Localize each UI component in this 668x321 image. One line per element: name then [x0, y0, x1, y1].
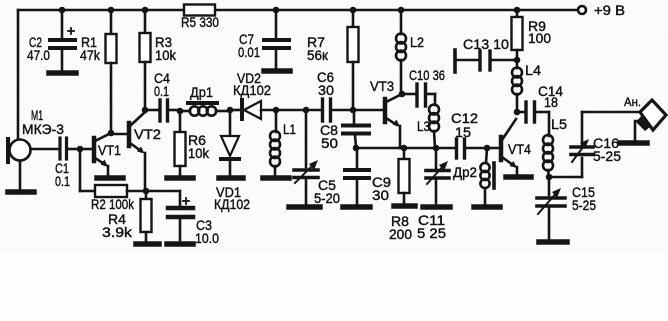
- resistor R8: [389, 148, 412, 242]
- diode VD1 КД102: [214, 110, 250, 212]
- node VT1 collector / R1 junction: [108, 130, 127, 137]
- svg-text:200: 200: [389, 227, 412, 242]
- node rail junction R1: [108, 7, 115, 14]
- node VD2 line / C5 junction: [303, 107, 310, 114]
- varicap VD2 КД102: [233, 71, 320, 119]
- node VT4 base / Dr2 junction: [484, 145, 491, 152]
- wire +9V rail right segment: [215, 9, 578, 12]
- svg-text:10k: 10k: [155, 48, 176, 63]
- microphone M1 МКЭ-3: [8, 108, 64, 189]
- inductor Dr2 choke: [453, 148, 494, 204]
- ground under L1: [263, 175, 289, 181]
- node L5 / C15 / C16 junction: [546, 174, 582, 181]
- resistor R9: [512, 10, 552, 68]
- svg-text:КД102: КД102: [233, 83, 271, 98]
- capacitor C8: [320, 110, 369, 151]
- svg-text:L2: L2: [410, 35, 424, 50]
- inductor L4: [512, 63, 542, 112]
- svg-text:18: 18: [544, 95, 558, 110]
- transistor VT3: [370, 79, 401, 148]
- svg-text:5-25: 5-25: [572, 198, 596, 213]
- wire left drop to microphone: [17, 10, 20, 140]
- svg-text:50: 50: [321, 136, 338, 151]
- node Dr1 / VD1 / VD2 junction: [227, 107, 240, 114]
- node rail junction C7: [273, 7, 280, 14]
- ground under C3: [167, 241, 193, 247]
- capacitor C14: [526, 84, 563, 122]
- node rail junction R3: [142, 7, 149, 14]
- node VT4 collector / L4 / C14 junction: [514, 109, 524, 116]
- node base VT1 / R2 junction: [77, 146, 92, 153]
- ground under VD1: [219, 175, 243, 181]
- resistor R6: [175, 111, 210, 175]
- ground under VT1 emitter: [97, 175, 123, 181]
- ground under Dr2: [474, 204, 500, 210]
- transistor VT1: [94, 134, 121, 176]
- svg-text:R2 100k: R2 100k: [91, 197, 134, 212]
- variable capacitor C5: [294, 110, 340, 206]
- svg-text:15: 15: [455, 125, 471, 140]
- svg-text:3.9k: 3.9k: [102, 225, 132, 240]
- svg-text:5 25: 5 25: [417, 226, 446, 241]
- capacitor C6: [317, 70, 352, 121]
- transistor VT4: [501, 119, 531, 174]
- node rail junction R9: [514, 7, 521, 14]
- node L3 / C11 / C12 junction: [433, 145, 440, 152]
- capacitor C9: [345, 148, 391, 204]
- svg-text:47.0: 47.0: [27, 48, 50, 63]
- svg-text:47k: 47k: [80, 48, 100, 63]
- svg-text:МКЭ-3: МКЭ-3: [22, 122, 64, 137]
- inductor L3: [417, 94, 439, 148]
- resistor R3: [140, 10, 177, 110]
- svg-text:C13 10: C13 10: [463, 37, 509, 52]
- svg-text:10.0: 10.0: [195, 231, 219, 246]
- resistor R5: [181, 5, 219, 31]
- ground under C9: [343, 204, 370, 210]
- svg-text:56к: 56к: [307, 48, 328, 63]
- svg-text:100: 100: [528, 31, 551, 46]
- node C8 / C9 / emitter line junction: [353, 145, 360, 152]
- inductor L1: [270, 110, 296, 175]
- svg-text:VT1: VT1: [98, 143, 121, 158]
- svg-text:10k: 10k: [188, 146, 209, 161]
- svg-text:30: 30: [318, 83, 334, 98]
- node +9V terminal: [578, 3, 625, 18]
- svg-text:Ан.: Ан.: [624, 95, 641, 109]
- wire emitter line VT3 to VT4: [356, 147, 455, 150]
- svg-text:Др1: Др1: [190, 85, 213, 100]
- node C4 / R6 / Dr1 junction: [177, 108, 190, 115]
- svg-text:C10 36: C10 36: [409, 68, 445, 83]
- capacitor C4: [154, 71, 178, 121]
- svg-text:+9 В: +9 В: [594, 3, 625, 18]
- ground under C15: [539, 239, 567, 245]
- node rail junction L2: [398, 7, 405, 14]
- capacitor C10: [409, 68, 445, 106]
- ground under R8: [394, 203, 415, 209]
- inductor Dr1 choke: [188, 85, 228, 116]
- ground under R6: [167, 175, 193, 181]
- wire antenna feed: [582, 111, 640, 114]
- antenna Ан.: [620, 95, 666, 143]
- ground under C2: [49, 70, 76, 76]
- svg-text:0.1: 0.1: [154, 84, 169, 99]
- svg-text:L1: L1: [283, 122, 296, 137]
- svg-text:5-25: 5-25: [593, 149, 621, 164]
- variable capacitor C11: [417, 148, 449, 241]
- node VT3 collector / L2 / C10 junction: [399, 91, 415, 98]
- ground under microphone: [8, 189, 34, 195]
- resistor R4: [102, 191, 152, 241]
- capacitor C7: [238, 10, 289, 68]
- capacitor C13: [455, 37, 517, 72]
- svg-text:L3: L3: [417, 119, 430, 134]
- transistor VT2: [129, 112, 161, 190]
- capacitor C3: [146, 191, 219, 246]
- svg-text:VT2: VT2: [134, 127, 161, 142]
- svg-text:М1: М1: [31, 108, 43, 123]
- capacitor C2: [27, 10, 75, 70]
- svg-text:КД102: КД102: [214, 197, 250, 212]
- svg-text:VT3: VT3: [370, 79, 394, 94]
- svg-text:L4: L4: [525, 63, 542, 78]
- svg-text:C12: C12: [451, 111, 478, 126]
- svg-text:L5: L5: [551, 117, 567, 132]
- svg-text:VT4: VT4: [508, 142, 531, 157]
- node VT3 emitter / R8 junction: [401, 145, 408, 152]
- inductor L2: [396, 10, 424, 93]
- variable capacitor C15: [537, 177, 596, 239]
- node rail junction R7: [350, 7, 357, 14]
- inductor L5: [543, 112, 567, 177]
- resistor R2: [80, 151, 145, 212]
- ground under VT4 emitter: [506, 174, 531, 180]
- node VD2 / L1 junction: [273, 107, 280, 114]
- capacitor C12: [451, 111, 499, 158]
- svg-text:30: 30: [372, 188, 389, 203]
- node rail junction C2: [59, 7, 66, 14]
- ground under C7: [264, 68, 290, 74]
- node R7 / C6 / C8 / VT3 base junction: [350, 107, 383, 114]
- wire +9V rail left segment: [18, 9, 184, 12]
- resistor R1: [80, 10, 117, 133]
- ground under R4: [136, 241, 159, 247]
- ground under C5: [289, 204, 320, 210]
- resistor R7: [307, 10, 359, 110]
- node R9 / C13 / L4 junction: [514, 57, 521, 64]
- svg-text:R5 330: R5 330: [181, 15, 219, 30]
- svg-text:5-20: 5-20: [314, 191, 340, 206]
- node R4 / C3 junction: [143, 188, 150, 195]
- svg-text:Др2: Др2: [453, 165, 477, 180]
- svg-text:0.1: 0.1: [55, 174, 70, 189]
- svg-text:0.01: 0.01: [238, 45, 260, 60]
- node VT2 collector / R3 / C4 junction: [142, 107, 158, 114]
- ground under C11: [423, 204, 450, 210]
- variable capacitor C16: [571, 112, 621, 177]
- capacitor C1: [55, 138, 78, 189]
